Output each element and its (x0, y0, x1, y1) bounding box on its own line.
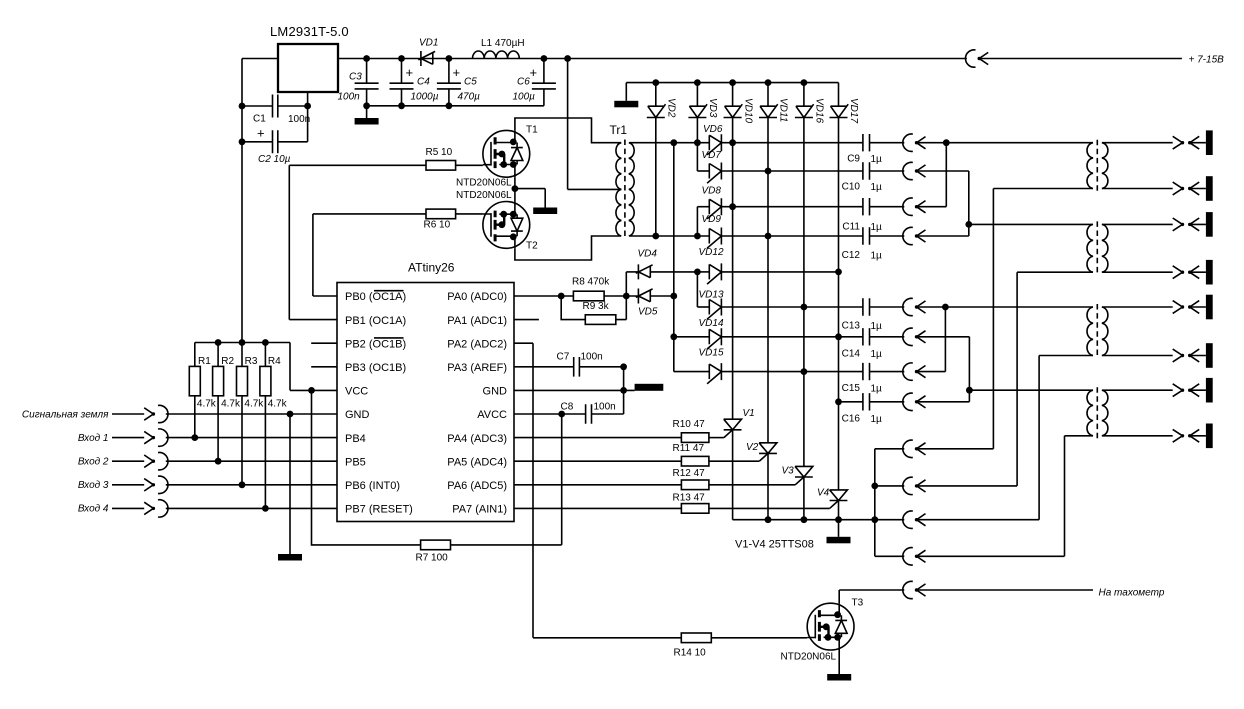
svg-text:C11: C11 (842, 222, 860, 233)
svg-text:PB2 (OC1B): PB2 (OC1B) (345, 338, 406, 350)
svg-text:+: + (257, 126, 265, 141)
svg-text:VD1: VD1 (419, 38, 438, 49)
wire regulator bottom pin (304, 92, 311, 109)
resistor R9 3k (561, 272, 626, 325)
svg-text:VD17: VD17 (848, 98, 859, 123)
svg-text:VCC: VCC (345, 386, 368, 398)
wire center tap from +V (568, 59, 621, 190)
svg-text:R4: R4 (268, 356, 281, 367)
svg-text:R11 47: R11 47 (673, 443, 705, 454)
svg-text:1µ: 1µ (871, 384, 883, 395)
connector output row8 (903, 363, 946, 380)
svg-text:C10: C10 (842, 181, 861, 192)
svg-text:PA1 (ADC1): PA1 (ADC1) (447, 315, 507, 327)
terminal out 7 (1173, 378, 1213, 403)
wire TrD bottom return (1065, 436, 1094, 557)
capacitor C12 1u (842, 227, 905, 261)
connector input Vhod1 (78, 429, 337, 446)
wire TrB right leads (1102, 224, 1173, 272)
capacitor C4 1000u (390, 59, 439, 106)
capacitor C5 470u (437, 59, 480, 106)
wire TrB bottom return (1017, 272, 1093, 486)
connector tachometer (903, 581, 1165, 598)
connector input Vhod3 (78, 476, 337, 493)
svg-text:R13 47: R13 47 (673, 493, 706, 504)
svg-text:PB1 (OC1A): PB1 (OC1A) (345, 315, 406, 327)
label V1-V4 25TTS08 (735, 539, 814, 551)
connector output row6 (903, 298, 1093, 315)
svg-text:VD4: VD4 (638, 249, 658, 260)
resistor R11 47 (673, 443, 760, 466)
wire return bus x874.8 (871, 449, 878, 557)
svg-text:PA0 (ADC0): PA0 (ADC0) (447, 291, 507, 303)
svg-text:R7 100: R7 100 (416, 553, 449, 564)
svg-text:470µ: 470µ (458, 92, 481, 103)
svg-text:C12: C12 (842, 250, 861, 261)
resistor R7 100 (312, 390, 562, 563)
thyristor V1 (724, 408, 755, 520)
transformer Tr1 (610, 123, 635, 239)
svg-text:PA5 (ADC4): PA5 (ADC4) (447, 456, 507, 468)
thyristor V3 (782, 466, 813, 524)
svg-text:4.7k: 4.7k (268, 399, 288, 410)
resistor R13 47 (673, 493, 830, 514)
wire output bus x673.8 (670, 139, 677, 371)
capacitor C8 100n (514, 402, 624, 424)
svg-text:C7: C7 (557, 352, 570, 363)
svg-text:R14 10: R14 10 (674, 648, 707, 659)
svg-text:VD14: VD14 (699, 318, 724, 329)
svg-text:VD16: VD16 (814, 98, 825, 123)
diode VD4 (626, 249, 701, 280)
diode VD11 (759, 83, 789, 443)
svg-text:На тахометр: На тахометр (1099, 588, 1165, 599)
terminal out 4 (1173, 260, 1213, 285)
thyristor V4 (817, 488, 847, 524)
connector input Vhod2 (78, 453, 337, 470)
wire regulator output rail y58.5 (338, 58, 967, 60)
connector return row 556.3 (875, 548, 1065, 565)
connector output row1 (903, 134, 1093, 151)
pin stub PB3 (311, 366, 337, 368)
wire link VD3 node to VD7 row (694, 139, 701, 171)
svg-text:V3: V3 (782, 466, 795, 477)
svg-text:Вход 1: Вход 1 (78, 433, 109, 444)
svg-text:VD3: VD3 (707, 98, 718, 118)
capacitor C13 1u (842, 298, 905, 332)
svg-text:PA7 (AIN1): PA7 (AIN1) (452, 504, 507, 516)
svg-text:PA2 (ADC2): PA2 (ADC2) (447, 338, 507, 350)
svg-text:VD8: VD8 (702, 186, 722, 197)
transformer TrA (1087, 140, 1108, 192)
svg-text:PB5: PB5 (345, 456, 366, 468)
wire TrC bottom return (1039, 356, 1093, 520)
svg-text:100n: 100n (581, 352, 603, 363)
ground signal (278, 554, 302, 561)
svg-text:1µ: 1µ (871, 182, 883, 193)
svg-text:PA3 (AREF): PA3 (AREF) (447, 362, 507, 374)
connector input signal ground (22, 405, 337, 422)
wire row5 / diode VD12 (697, 247, 841, 284)
wire link VD8 row to sec bottom (694, 207, 701, 240)
wire pair link rows 7-9 to TrD (966, 337, 1093, 402)
svg-text:Вход 4: Вход 4 (78, 504, 109, 515)
resistor R14 10 (674, 633, 808, 659)
svg-text:R2: R2 (221, 356, 234, 367)
diode VD10 (724, 83, 754, 420)
svg-text:PB3 (OC1B): PB3 (OC1B) (345, 362, 406, 374)
diode VD16 (795, 83, 825, 467)
wire TrA bottom return (993, 189, 1093, 449)
svg-text:VD7: VD7 (702, 150, 722, 161)
svg-text:4.7k: 4.7k (197, 399, 217, 410)
resistor R5 10 (289, 147, 483, 170)
svg-text:VD5: VD5 (638, 307, 658, 318)
wire PA7 to R13 (514, 507, 681, 509)
connector output row3 (903, 198, 947, 215)
svg-text:T3: T3 (852, 598, 864, 609)
svg-text:VD10: VD10 (742, 98, 753, 123)
svg-text:V1-V4 25TTS08: V1-V4 25TTS08 (735, 539, 814, 551)
wire VCC (290, 387, 337, 394)
wire PA4 to R10 (514, 437, 681, 439)
wire row6 / diode VD13 (697, 290, 863, 320)
svg-text:+: + (530, 65, 538, 80)
connector +7-15V input (965, 50, 1224, 67)
svg-text:PB0 (OC1A): PB0 (OC1A) (345, 291, 406, 303)
diode VD17 (830, 83, 860, 490)
connector output row9 (903, 393, 970, 410)
thyristor V2 (746, 442, 777, 523)
svg-text:L1 470µH: L1 470µH (481, 38, 525, 49)
node T1 source / T2 source / ground (512, 177, 519, 201)
svg-text:4.7k: 4.7k (244, 399, 264, 410)
svg-text:C15: C15 (842, 383, 861, 394)
svg-text:+: + (406, 65, 414, 80)
wire T3 drain to tach connector (839, 590, 904, 603)
wire row9 C16 feed (835, 398, 863, 405)
svg-text:4.7k: 4.7k (221, 399, 241, 410)
svg-text:C3: C3 (349, 72, 362, 83)
wire R6 to PB0 (313, 214, 337, 296)
svg-text:V2: V2 (746, 442, 759, 453)
wire PA5 to R11 (514, 460, 681, 462)
svg-text:LM2931T-5.0: LM2931T-5.0 (270, 24, 349, 39)
wire T2 drain to Tr1 bottom (515, 236, 621, 260)
wire signal ground drop (289, 414, 291, 554)
svg-text:R1: R1 (198, 356, 211, 367)
svg-text:R8 470k: R8 470k (572, 277, 610, 288)
capacitor C16 1u (842, 393, 905, 425)
svg-text:R6 10: R6 10 (424, 220, 451, 231)
capacitor C11 1u (842, 198, 904, 233)
wire row8 / diode VD15 (674, 347, 863, 383)
wire pair link rows 1-3 (945, 143, 947, 207)
svg-text:+: + (453, 65, 461, 80)
svg-text:C13: C13 (842, 320, 861, 331)
wire PA0 (514, 293, 573, 300)
wire T1 drain to Tr1 top (515, 118, 621, 143)
svg-text:AVCC: AVCC (477, 409, 507, 421)
connector output row2 (903, 162, 969, 179)
svg-text:T1: T1 (526, 125, 538, 136)
resistor R2 4.7k (213, 343, 241, 462)
wire clamp rail top (626, 79, 838, 86)
wire row1 secondary top / diode VD6 (630, 124, 863, 155)
svg-text:R10 47: R10 47 (673, 419, 706, 430)
svg-text:PB4: PB4 (345, 433, 366, 445)
capacitor C3 100n (338, 59, 379, 106)
transformer TrD (1087, 387, 1108, 439)
svg-text:1µ: 1µ (871, 349, 883, 360)
svg-text:GND: GND (345, 409, 370, 421)
diode VD1 (418, 38, 438, 67)
wire R5 to PB1 (289, 165, 337, 319)
svg-text:VD15: VD15 (699, 347, 724, 358)
svg-text:NTD20N06L: NTD20N06L (456, 178, 512, 189)
wire pair link rows 2-4 to TrB (965, 171, 1093, 236)
ground chip right (635, 384, 664, 391)
ground cathode rail (827, 520, 851, 544)
svg-text:1µ: 1µ (871, 222, 883, 233)
svg-text:R12 47: R12 47 (673, 468, 706, 479)
svg-text:1µ: 1µ (871, 321, 883, 332)
terminal out 1 (1173, 130, 1213, 155)
regulator U1 LM2931T-5.0 (270, 24, 349, 92)
inductor L1 470uH (473, 38, 525, 59)
IC overlines OC1A OC1B (374, 291, 404, 338)
wire row2 / diode VD7 (697, 150, 863, 183)
ground clamp rail (614, 83, 638, 108)
transistor T2 NTD20N06L (456, 190, 538, 252)
terminal out 8 (1173, 424, 1213, 449)
wire R1-R4 top rail (195, 339, 290, 390)
capacitor C1 100n (239, 95, 311, 126)
wire link VD4 row to VD13 row (696, 272, 698, 307)
resistor R10 47 (673, 419, 724, 442)
svg-text:C6: C6 (517, 77, 530, 88)
diode VD5 (636, 289, 677, 318)
wire cathode rail (733, 516, 905, 523)
wire row4 secondary bottom / diode VD9 (630, 214, 863, 248)
IC ATtiny26 (337, 261, 514, 522)
terminal out 2 (1173, 176, 1213, 201)
svg-text:1µ: 1µ (871, 414, 883, 425)
terminal out 6 (1173, 343, 1213, 368)
svg-text:GND: GND (483, 386, 508, 398)
capacitor C9 1u (847, 134, 904, 165)
svg-text:R5 10: R5 10 (426, 147, 453, 158)
wire TrC right leads (1102, 307, 1173, 356)
svg-text:100n: 100n (338, 92, 361, 103)
IC pin labels right (447, 291, 507, 515)
svg-text:1µ: 1µ (871, 154, 883, 165)
connector output row4 (903, 227, 969, 244)
svg-text:C1: C1 (253, 114, 266, 125)
transistor T3 NTD20N06L (781, 598, 864, 663)
resistor R12 47 (673, 468, 796, 490)
connector return row 519.7 (903, 511, 1039, 528)
pin stub PA1 (514, 319, 539, 321)
capacitor C7 100n (514, 352, 627, 377)
svg-text:R9 3k: R9 3k (583, 301, 610, 312)
svg-text:PB6 (INT0): PB6 (INT0) (345, 480, 400, 492)
svg-text:NTD20N06L: NTD20N06L (781, 652, 837, 663)
pin stub PB2 (311, 342, 337, 344)
svg-text:T2: T2 (526, 241, 538, 252)
node reg top rail junctions (363, 55, 571, 62)
capacitor C2 10u (239, 106, 308, 165)
wire regulator input rail top (242, 59, 278, 343)
resistor R8 470k (572, 277, 638, 301)
svg-text:Сигнальная земля: Сигнальная земля (22, 409, 109, 420)
svg-text:C14: C14 (842, 349, 861, 360)
capacitor C10 1u (842, 162, 905, 193)
svg-text:C5: C5 (464, 77, 477, 88)
wire TrA right leads (1102, 143, 1173, 189)
transformer TrB (1087, 221, 1108, 275)
terminal out 3 (1173, 212, 1213, 237)
wire row3 / diode VD8 (697, 186, 863, 219)
svg-text:C9: C9 (847, 154, 860, 165)
connector return row 448.8 (875, 440, 994, 457)
svg-text:Вход 2: Вход 2 (78, 457, 109, 468)
resistor R4 4.7k (260, 343, 288, 509)
svg-text:VD13: VD13 (699, 290, 724, 301)
svg-text:Вход 3: Вход 3 (78, 480, 109, 491)
wire PA2 to R14 (514, 343, 681, 638)
svg-text:V1: V1 (743, 408, 755, 419)
wire PA6 to R12 (514, 484, 681, 486)
terminal out 5 (1173, 295, 1213, 320)
capacitor C6 100u (513, 59, 556, 106)
svg-text:ATtiny26: ATtiny26 (408, 261, 455, 275)
wire chip GND right to ground (514, 367, 635, 414)
IC pin labels left (345, 291, 413, 515)
connector input Vhod4 (78, 500, 337, 517)
resistor R3 4.7k (237, 343, 265, 485)
svg-text:Tr1: Tr1 (610, 123, 628, 137)
svg-text:V4: V4 (817, 488, 830, 499)
diode VD2 (647, 83, 677, 236)
transistor T1 NTD20N06L (456, 125, 538, 189)
svg-text:PB7 (RESET): PB7 (RESET) (345, 504, 413, 516)
svg-text:C2 10µ: C2 10µ (258, 154, 291, 165)
transformer TrC (1087, 304, 1108, 359)
resistor R6 10 (313, 209, 483, 230)
connector return row 485.9 (875, 477, 1017, 494)
svg-text:VD11: VD11 (778, 98, 789, 122)
svg-text:C8: C8 (561, 402, 574, 413)
svg-text:1000µ: 1000µ (411, 92, 439, 103)
svg-text:100µ: 100µ (513, 92, 536, 103)
svg-text:C16: C16 (842, 414, 861, 425)
svg-text:NTD20N06L: NTD20N06L (456, 190, 512, 201)
connector output row7 (903, 328, 970, 345)
wire TrD right leads (1102, 390, 1173, 436)
svg-text:PA4 (ADC3): PA4 (ADC3) (447, 433, 507, 445)
wire row7 / diode VD14 (674, 318, 863, 349)
ground at T1/T2 midpoint (515, 189, 557, 214)
capacitor C15 1u (842, 363, 905, 395)
wire pair link rows 6-8 (944, 307, 946, 372)
capacitor C14 1u (842, 328, 905, 360)
svg-text:C4: C4 (417, 77, 430, 88)
diode VD3 (688, 83, 718, 143)
svg-text:VD9: VD9 (702, 214, 722, 225)
ground T3 source (827, 650, 851, 681)
svg-text:VD6: VD6 (703, 124, 723, 135)
svg-text:1µ: 1µ (871, 251, 883, 262)
svg-text:PA6 (ADC5): PA6 (ADC5) (447, 480, 507, 492)
wire bottom cap rail (363, 102, 544, 109)
svg-text:R3: R3 (245, 356, 258, 367)
svg-text:100n: 100n (594, 402, 616, 413)
svg-text:VD12: VD12 (699, 247, 724, 258)
svg-text:+ 7-15В: + 7-15В (1189, 55, 1225, 66)
ground below C3 (355, 106, 379, 125)
svg-text:VD2: VD2 (666, 98, 677, 118)
resistor R1 4.7k (189, 343, 217, 438)
